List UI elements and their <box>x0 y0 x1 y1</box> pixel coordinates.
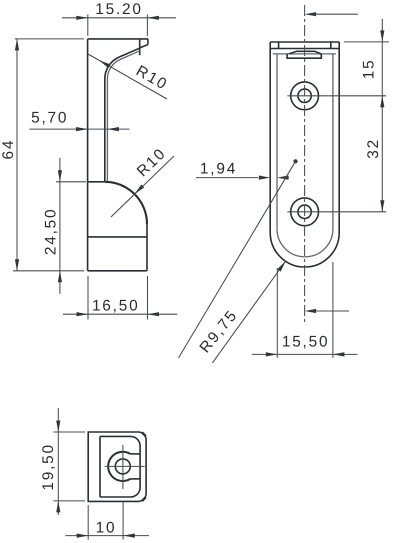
leader R9,75 line <box>212 261 285 363</box>
dim 32 bottom arrow <box>380 200 384 212</box>
dim 5,70 left arrow <box>76 127 88 131</box>
dim 64 dimension line <box>16 39 18 271</box>
dim 19,50 bottom arrow <box>56 501 60 513</box>
part: second horizontal edge below top <box>270 48 339 50</box>
dim 16,50 dimension line <box>63 313 177 315</box>
part: screw hole circle <box>115 459 130 474</box>
part: inner underside slope + bend + web inner line <box>107 51 139 182</box>
dim 24,50 extension line <box>56 181 86 183</box>
svg-text:R10: R10 <box>134 145 170 181</box>
dim 10 extension line right <box>122 502 124 540</box>
dim 64 top arrow <box>15 39 19 51</box>
dim 16,50 left arrow <box>77 312 89 316</box>
part: outer underside slope + R10 bend + web outer line <box>105 48 140 182</box>
dim 16,50 right arrow <box>148 312 160 316</box>
part: third horizontal fold edge <box>273 53 336 55</box>
bottom centerline arrow tail <box>316 310 349 312</box>
dim 10 dimension line <box>65 535 149 537</box>
part: top-right corner chamfer <box>142 432 146 436</box>
part: bottom R10 arc <box>105 182 147 224</box>
top centerline arrow <box>305 12 317 16</box>
hole 2 center line / extension <box>287 211 386 213</box>
dim 19,50 extension line bottom <box>53 500 85 502</box>
part: detent tongue hump <box>289 51 321 54</box>
dim 5,70 right arrow <box>107 127 119 131</box>
svg-text:24,50: 24,50 <box>43 208 60 256</box>
part: mid horizontal edge of bottom block <box>88 236 147 238</box>
vertical centerline <box>304 5 306 325</box>
dim 15.20 left arrow <box>76 16 88 20</box>
part: bottom view inner left edge <box>99 436 101 497</box>
svg-text:15.20: 15.20 <box>95 1 143 18</box>
dim 64 extension line bottom <box>13 270 84 272</box>
dim 1,94 dimension line <box>196 177 258 179</box>
dim 19,50 dimension line <box>57 408 59 515</box>
dim 10 left arrow <box>77 534 89 538</box>
svg-text:R10: R10 <box>133 62 171 93</box>
dim 24,50 dimension line <box>59 158 61 294</box>
dim 15/32 extension line top <box>344 41 389 43</box>
part: top edge of hook arm <box>88 38 148 40</box>
hole 2 outer circle <box>291 198 319 226</box>
svg-text:64: 64 <box>0 139 17 160</box>
part: top-right corner fold tick <box>330 42 332 49</box>
part: front right outer edge <box>338 42 340 233</box>
dim 15,50 dimension line <box>252 353 358 355</box>
dim 19,50 top arrow <box>56 421 60 433</box>
hole 1 center line / extension <box>287 95 386 97</box>
top centerline arrow tail <box>316 13 358 15</box>
dim 16,50 extension line left <box>87 276 89 320</box>
dim 15,50 right arrow <box>333 352 345 356</box>
svg-text:15: 15 <box>360 59 377 80</box>
svg-text:19,50: 19,50 <box>40 443 57 491</box>
leader R10 bottom arrow <box>135 185 145 195</box>
dim 15,50 extension line right <box>332 262 334 358</box>
dim 10 right arrow <box>123 534 135 538</box>
dim 1,94 reference dot <box>293 159 297 163</box>
part: fold line at arm end <box>139 39 141 55</box>
part: back plate vertical edge <box>87 39 89 271</box>
part: detent tongue pocket <box>287 54 321 58</box>
dim 1,94 left arrow <box>259 176 271 180</box>
dim 15.20 dimension line <box>62 17 176 19</box>
dim 15,50 extension line left <box>276 268 278 358</box>
bottom centerline arrow <box>305 309 317 313</box>
svg-text:1,94: 1,94 <box>200 161 237 178</box>
dim 24,50 top arrow <box>58 170 62 182</box>
dim 15.20 extension line right <box>146 15 148 36</box>
svg-text:5,70: 5,70 <box>31 109 68 126</box>
dim 5,70 dimension line <box>30 128 130 130</box>
hole crosshair vertical <box>122 445 124 489</box>
svg-text:16,50: 16,50 <box>92 297 140 314</box>
part: outer U-bottom arc R9.75 <box>270 233 339 268</box>
part: horizontal edge at web bottom <box>88 181 105 183</box>
part: right end face of arm <box>147 39 149 45</box>
part: top-left corner fold tick <box>278 42 280 49</box>
part: inner U-bottom arc <box>277 229 333 257</box>
part: bottom view inner bottom edge <box>100 466 140 497</box>
dim 64 bottom arrow <box>15 259 19 271</box>
leader R10 top arrow <box>99 60 110 68</box>
hole 1 inner circle <box>298 89 311 102</box>
leader R10 bottom line <box>111 156 174 217</box>
part: bottom edge <box>88 270 147 272</box>
dim 1,94 right arrow <box>277 176 289 180</box>
dim 15.20 extension line left <box>87 15 89 36</box>
dim 1,94 right tail <box>287 177 289 179</box>
leader R9,75 arrow <box>277 261 285 272</box>
leader R10 top line <box>88 54 167 99</box>
hole 1 outer circle <box>291 82 319 110</box>
part: right inner fold line <box>332 54 334 229</box>
dim 64 extension line top <box>15 38 84 40</box>
part: lower right vertical edge <box>146 224 148 271</box>
hole 2 inner circle <box>298 205 311 218</box>
part: bottom view outer outline <box>88 432 146 501</box>
dim 10 extension line left <box>87 505 89 540</box>
dim 15.20 right arrow <box>147 16 159 20</box>
part: front top edge <box>270 41 339 43</box>
dim 16,50 extension line right <box>147 276 149 320</box>
dim 19,50 extension line top <box>53 431 85 433</box>
part: keyhole slot bottom wall <box>130 478 140 480</box>
part: bottom view inner top edge <box>100 436 140 466</box>
svg-text:15,50: 15,50 <box>282 333 330 350</box>
part: front left outer edge <box>269 42 271 233</box>
part: bottom-right corner chamfer <box>142 497 146 501</box>
dim 15/32 dimension line <box>381 19 383 212</box>
part: left inner fold line <box>276 54 278 229</box>
part: keyhole C-profile <box>108 452 130 481</box>
dim 1,94 dot leader line <box>179 161 296 358</box>
svg-text:32: 32 <box>365 138 382 159</box>
hole crosshair horizontal <box>105 465 145 467</box>
svg-text:10: 10 <box>96 519 117 536</box>
part: under-step edge <box>140 45 148 48</box>
dim 24,50 bottom arrow <box>58 271 62 283</box>
dim 15 top arrow <box>380 30 384 42</box>
part: keyhole slot top wall <box>130 453 140 455</box>
dim 15,50 left arrow <box>266 352 278 356</box>
dim 15-32 middle arrow <box>380 96 384 108</box>
